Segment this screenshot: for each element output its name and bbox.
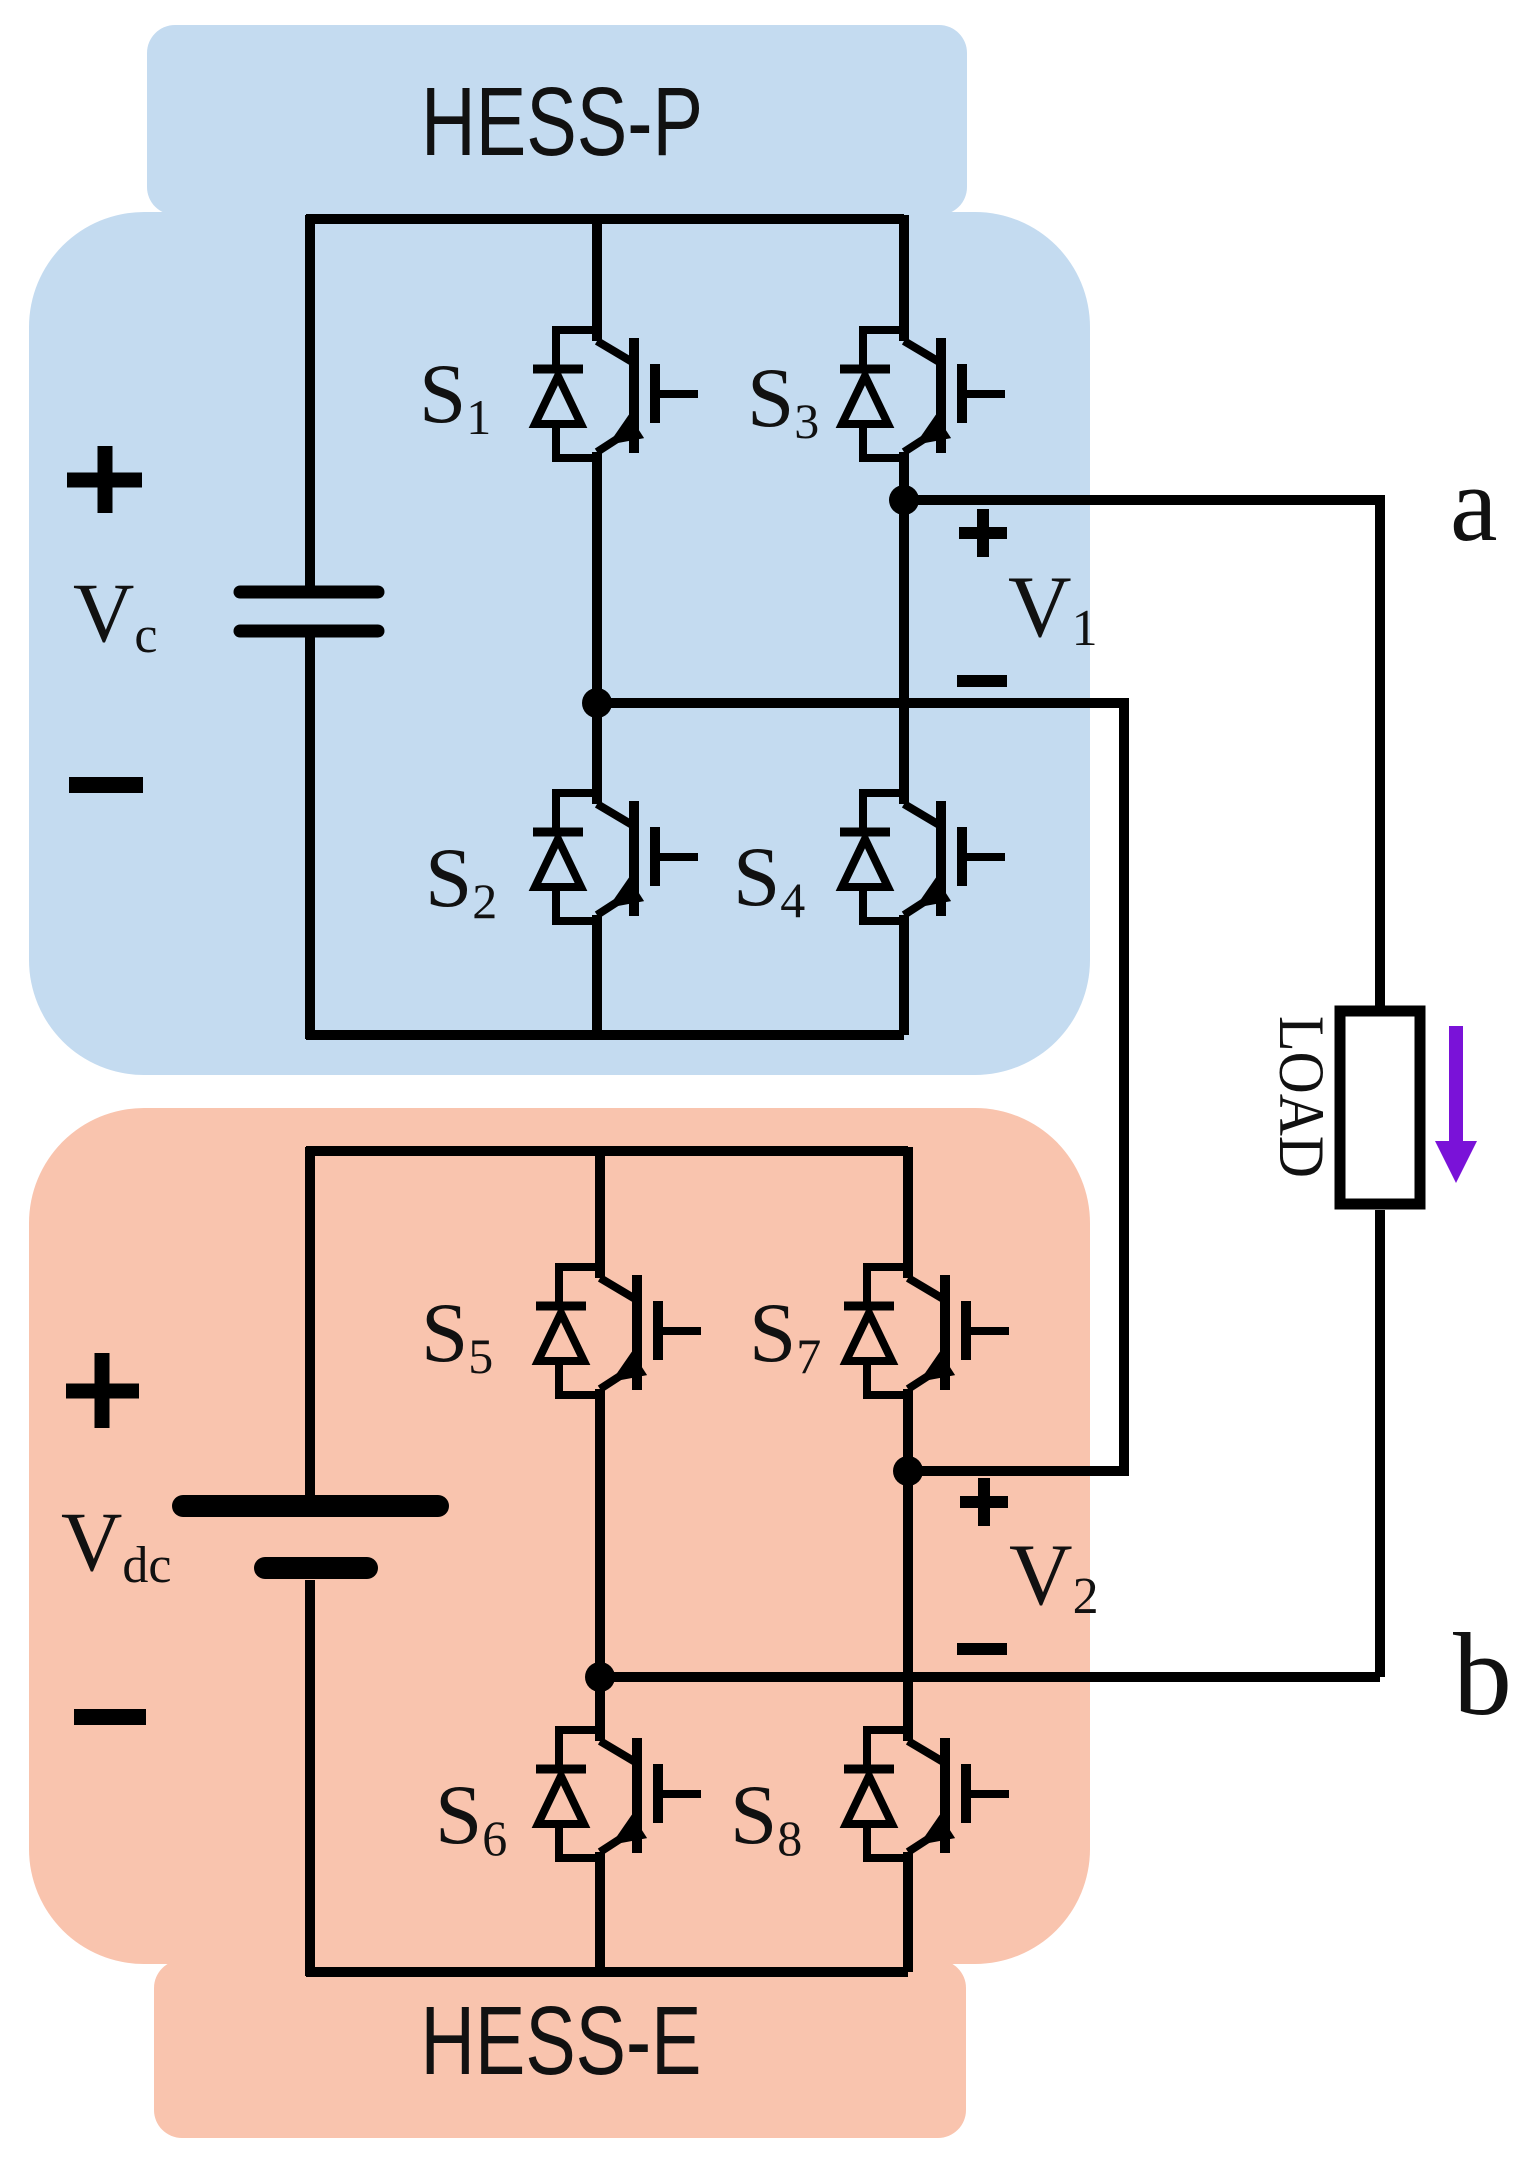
node V1+ (S3/S4 midpoint) bbox=[889, 485, 919, 515]
wire: S8 emitter to bottom bus bbox=[903, 1852, 913, 1972]
node V2+ (S7/S8 midpoint) bbox=[893, 1456, 923, 1486]
wire: node to S4 bbox=[899, 500, 909, 804]
wire: S1 leg upper bbox=[592, 215, 602, 341]
wire: S4 emitter to bottom bus bbox=[899, 915, 909, 1035]
svg-text:b: b bbox=[1453, 1609, 1512, 1740]
wire: battery branch lower bbox=[305, 1580, 315, 1976]
wire: S2 emitter to bottom bus bbox=[592, 915, 602, 1035]
label minus (Vc minus) bbox=[69, 777, 143, 793]
wire: bridge2 top bus bbox=[306, 1146, 908, 1156]
transistor S8 bbox=[844, 1730, 1009, 1858]
label minus (Vdc minus) bbox=[74, 1709, 146, 1725]
wire: S5 emitter to mid node bbox=[595, 1389, 605, 1677]
wire: battery branch upper bbox=[305, 1147, 315, 1495]
wire: bridge1 bottom bus bbox=[306, 1030, 904, 1040]
label + (Vc plus) bbox=[67, 446, 142, 513]
node S5/S6 midpoint bbox=[585, 1662, 615, 1692]
wire: S2 leg upper bbox=[592, 703, 602, 804]
transistor S7 bbox=[844, 1267, 1009, 1395]
wire: S6 leg upper bbox=[595, 1677, 605, 1741]
wire: V1- to V2+ link bbox=[597, 703, 1124, 1471]
wire: S7 leg upper bbox=[903, 1147, 913, 1278]
node S1/S2 midpoint bbox=[582, 688, 612, 718]
HESS-E group body bbox=[29, 1108, 1090, 1964]
label minus (V1 minus) bbox=[957, 675, 1007, 687]
wire: S1 emitter to mid node bbox=[592, 452, 602, 703]
wire: S3 leg upper bbox=[899, 215, 909, 341]
load resistor bbox=[1340, 1011, 1420, 1204]
label + (V2 plus) bbox=[960, 1478, 1008, 1526]
svg-text:HESS-P: HESS-P bbox=[421, 67, 703, 176]
transistor S4 bbox=[840, 793, 1005, 921]
wire: S6 emitter to bottom bus bbox=[595, 1852, 605, 1972]
HESS-P group tab bbox=[147, 25, 967, 215]
label + (V1 plus) bbox=[959, 509, 1007, 557]
transistor S1 bbox=[533, 330, 698, 458]
wire: node to S8 bbox=[903, 1471, 913, 1741]
HESS-E group tab bbox=[154, 1960, 966, 2138]
wire: V2- to node b bbox=[600, 1672, 1380, 1682]
capacitor Vc bbox=[240, 592, 378, 631]
svg-text:a: a bbox=[1450, 446, 1498, 564]
wire: capacitor branch upper bbox=[305, 215, 315, 586]
wire: capacitor branch lower bbox=[305, 637, 315, 1039]
wire: S5 leg upper bbox=[595, 1147, 605, 1278]
transistor S6 bbox=[536, 1730, 701, 1858]
HESS-P group body bbox=[29, 212, 1090, 1075]
wire: load bottom to node b bbox=[1375, 1210, 1385, 1677]
transistor S5 bbox=[536, 1267, 701, 1395]
wire: bridge2 bottom bus bbox=[306, 1967, 908, 1977]
label + (Vdc plus) bbox=[66, 1353, 139, 1428]
svg-text:HESS-E: HESS-E bbox=[421, 1986, 702, 2095]
svg-text:LOAD: LOAD bbox=[1265, 1016, 1337, 1178]
battery Vdc bbox=[183, 1506, 438, 1568]
wire: node a to load top bbox=[904, 500, 1380, 1006]
wire: S7 emitter to node V2+ bbox=[903, 1389, 913, 1471]
current arrow (purple) bbox=[1435, 1026, 1477, 1183]
wire: bridge1 top bus bbox=[306, 214, 904, 224]
label minus (V2 minus) bbox=[957, 1643, 1007, 1655]
wire: S3 emitter to node a branch bbox=[899, 452, 909, 500]
transistor S2 bbox=[533, 793, 698, 921]
transistor S3 bbox=[840, 330, 1005, 458]
